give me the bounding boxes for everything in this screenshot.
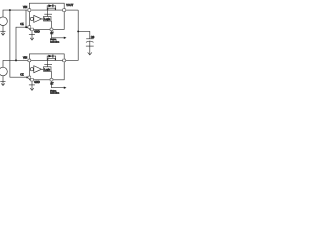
voltage source V2: [0, 67, 7, 76]
wire logic to ST: [51, 21, 53, 28]
wire logic to gate: [47, 60, 49, 66]
svg-text:GND: GND: [34, 31, 40, 34]
pin CE: [28, 76, 31, 79]
ground: [0, 30, 5, 32]
comparator bubble U1: [30, 17, 33, 20]
capacitor C1: [86, 38, 93, 40]
svg-text:VIN: VIN: [23, 6, 27, 9]
ground U1: [29, 34, 35, 36]
pin VIN: [28, 59, 31, 62]
wire gate bus: [44, 13, 52, 15]
wire: [2, 26, 4, 32]
svg-text:Indication: Indication: [50, 40, 60, 43]
pin ST: [50, 28, 53, 31]
wire: [24, 76, 28, 78]
comparator U2 triangle: [34, 66, 42, 73]
wire logic to ST: [51, 71, 53, 78]
pin CE: [28, 26, 31, 29]
svg-text:CE: CE: [20, 23, 24, 26]
voltage source V1: [0, 17, 7, 26]
diode D1 line: [47, 6, 56, 10]
wire: [3, 60, 29, 67]
ground C1: [86, 45, 94, 47]
wire VOUT U1 to rail: [66, 9, 79, 11]
svg-text:CS: CS: [91, 36, 95, 39]
svg-text:Logic: Logic: [44, 18, 51, 21]
ground: [0, 81, 5, 83]
pin ST: [50, 78, 53, 81]
node VOUT: [77, 30, 79, 32]
svg-text:Logic: Logic: [44, 68, 51, 71]
transistor gate bar Q2: [48, 58, 55, 60]
svg-text:CE: CE: [20, 73, 24, 76]
wire VOUT rail: [66, 10, 79, 60]
arrow status U1: [64, 37, 67, 39]
diode D2: [48, 55, 53, 58]
wire arrow into CE pin: [26, 76, 28, 78]
wire to capacitor: [78, 31, 90, 38]
wire arrow into CE pin: [26, 26, 28, 28]
logic block U2: [44, 67, 52, 72]
wire logic to gate: [47, 10, 49, 16]
wire: [25, 10, 27, 27]
transistor gate bar Q1: [48, 8, 55, 10]
svg-text:VIN: VIN: [23, 57, 27, 60]
node B: [15, 59, 17, 61]
IC U1: [29, 3, 64, 29]
wire: [16, 27, 28, 60]
logic block U1: [44, 17, 52, 22]
wire gate bus: [44, 64, 52, 66]
pin VOUT: [63, 9, 66, 12]
wire: [10, 10, 28, 77]
wire: [89, 41, 91, 54]
IC U2: [29, 54, 64, 80]
wire: [3, 10, 29, 17]
node CE1: [25, 26, 27, 28]
ground U2: [29, 84, 35, 86]
svg-text:ST: ST: [50, 83, 54, 86]
comparator U1 triangle: [34, 15, 42, 22]
wire power path U2: [31, 59, 63, 61]
wire GND U2: [31, 81, 33, 90]
svg-text:ST: ST: [50, 32, 54, 35]
wire: [2, 76, 4, 82]
pin VIN: [28, 9, 31, 12]
wire: [42, 18, 44, 20]
wire power path U1: [31, 9, 63, 11]
arrow status U2: [64, 87, 67, 89]
diode D1: [48, 4, 53, 7]
node A: [9, 9, 11, 11]
wire ST U2: [52, 81, 65, 88]
svg-text:Indication: Indication: [50, 92, 60, 95]
diode D2 line: [47, 56, 56, 60]
wire ST U1: [52, 31, 65, 38]
svg-text:VOUT: VOUT: [66, 4, 73, 7]
comparator bubble U2: [30, 68, 33, 71]
wire GND U1: [31, 31, 33, 40]
pin GND: [31, 28, 34, 31]
pin VOUT: [63, 59, 66, 62]
capacitor C1 lower plate: [86, 41, 94, 42]
pin GND: [31, 78, 34, 81]
wire: [42, 68, 44, 70]
svg-text:GND: GND: [34, 81, 40, 84]
